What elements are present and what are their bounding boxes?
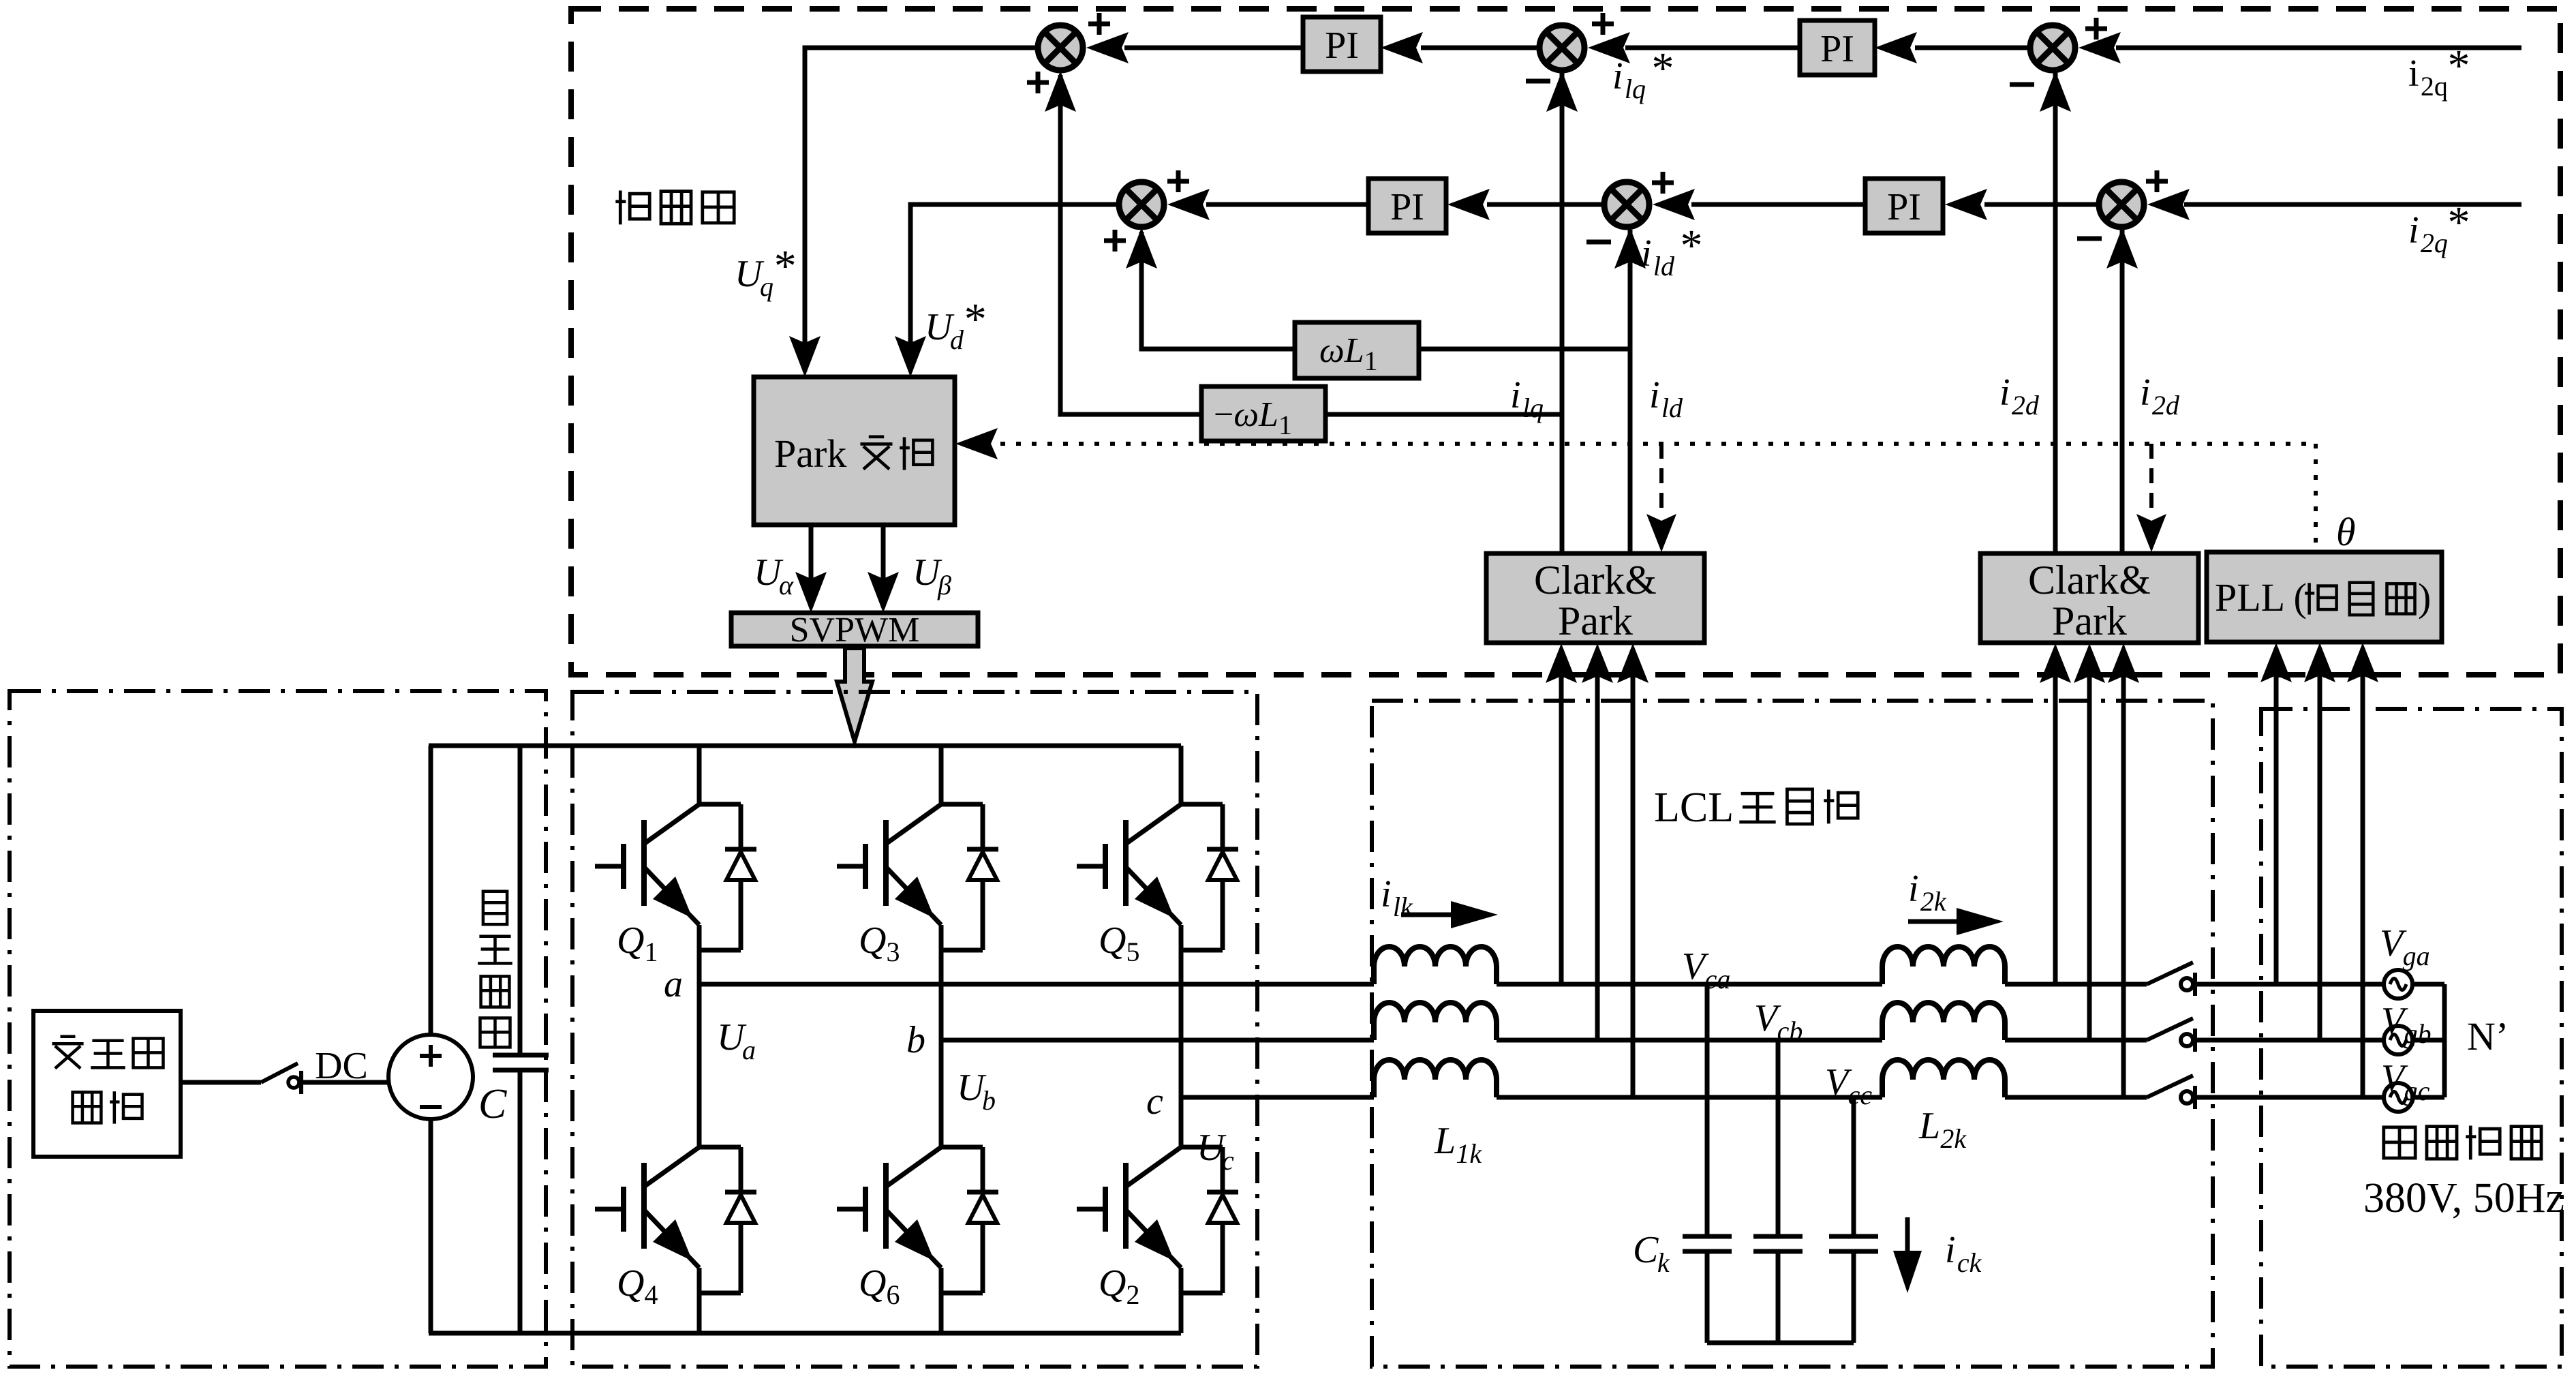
wire source to switch — [181, 1080, 261, 1085]
wire DC source bottom — [429, 1119, 433, 1333]
svg-text:lq: lq — [1625, 74, 1646, 104]
label Ualpha — [754, 551, 794, 600]
svg-text:Clark&: Clark& — [1534, 558, 1657, 603]
arrow into SJ1 — [1086, 32, 1129, 63]
dashed theta branch to Clark&Park1 — [1646, 444, 1676, 552]
neutral bus N' — [2442, 984, 2447, 1097]
svg-text:): ) — [2418, 575, 2431, 620]
plus sign SJ4 lower — [1104, 230, 1126, 252]
arrow into Clark&Park1 a — [1546, 643, 1577, 683]
arrow into SJ6 bottom — [2106, 228, 2138, 269]
capacitor C plates — [493, 1055, 549, 1070]
label i2d right — [2140, 371, 2180, 421]
svg-text:Park: Park — [1558, 598, 1633, 643]
svg-text:Park: Park — [774, 431, 846, 476]
arrow into Clark&Park2 b — [2074, 643, 2105, 683]
label N' — [2467, 1014, 2509, 1059]
summing junction SJ5 — [1604, 182, 1649, 227]
inductor L2k phase c — [1882, 1060, 2005, 1097]
switch DC blade — [261, 1063, 298, 1082]
svg-text:2q: 2q — [2421, 71, 2448, 102]
svg-text:i: i — [2408, 52, 2419, 95]
svg-text:i: i — [1381, 873, 1392, 915]
dotted theta line (PLL to Park) — [1000, 442, 2316, 446]
inductor L1k phase a — [1374, 947, 1497, 984]
wire Vcc tap — [1852, 1097, 1856, 1236]
capacitor Ck phase c — [1829, 1236, 1878, 1251]
svg-text:i: i — [1649, 374, 1660, 416]
wire PI1 to SJ1 — [1124, 46, 1303, 50]
wire Vga to bus — [2412, 982, 2444, 987]
summing junction SJ6 — [2099, 182, 2144, 227]
wire phase c (L1k to L2k) — [1497, 1095, 1882, 1100]
plus sign DC source — [420, 1045, 442, 1067]
wire -wL1 left to SJ1 — [1060, 75, 1201, 414]
svg-text:i: i — [1908, 868, 1919, 910]
label L2k — [1918, 1105, 1967, 1154]
svg-text:q: q — [760, 271, 773, 302]
svg-text:Park: Park — [2052, 598, 2127, 643]
grid source Vga — [2384, 970, 2412, 999]
arrow into Clark&Park1 b — [1582, 643, 1613, 683]
wire Ud* (SJ4 to Park) — [910, 204, 1118, 371]
wire phase a (L1k to L2k) — [1497, 982, 1882, 987]
wire Ubeta — [881, 525, 886, 607]
arrow into PLL c — [2347, 643, 2378, 682]
svg-text:k: k — [1657, 1247, 1670, 1278]
svg-text:N’: N’ — [2467, 1014, 2509, 1059]
plus sign SJ1 upper — [1088, 13, 1110, 35]
plus sign SJ6 — [2146, 170, 2168, 192]
svg-text:C: C — [1633, 1229, 1659, 1271]
label Ub — [957, 1067, 996, 1116]
svg-text:gb: gb — [2404, 1018, 2432, 1049]
wire phase a (L2k to switch) — [2005, 982, 2147, 987]
inductor L1k phase c — [1374, 1060, 1497, 1097]
label 船舶电网 (ship grid) — [2384, 1125, 2541, 1159]
wire tap phase a to Clark&Park1 — [1559, 649, 1564, 984]
wire PI4 to SJ5 — [1691, 202, 1865, 207]
dashed theta branch to Clark&Park2 — [2136, 444, 2166, 552]
svg-text:PI: PI — [1887, 186, 1921, 228]
svg-text:lq: lq — [1522, 393, 1544, 423]
svg-text:Clark&: Clark& — [2028, 558, 2151, 603]
label ilk — [1381, 873, 1413, 922]
svg-text:d: d — [950, 324, 964, 355]
wire SJ5 to PI3 — [1487, 202, 1604, 207]
dash-dot box LCL filter — [1372, 701, 2213, 1367]
minus sign SJ6 — [2077, 237, 2102, 241]
capacitor Ck phase a — [1683, 1236, 1732, 1251]
dotted theta vertical at PLL — [2314, 444, 2318, 549]
svg-text:2k: 2k — [1920, 886, 1947, 917]
switch DC circle — [288, 1071, 301, 1094]
svg-text:i: i — [1945, 1229, 1956, 1271]
arrow into SJ3 bottom — [2040, 71, 2071, 112]
svg-text:b: b — [906, 1019, 925, 1061]
summing junction SJ1 — [1038, 25, 1083, 70]
arrow into PLL b — [2304, 643, 2335, 682]
arrow into SJ2 — [1588, 32, 1630, 63]
grid switch phase b — [2147, 1018, 2195, 1052]
label 稳压电容 (vertical) — [478, 892, 512, 1048]
label 380V 50Hz — [2363, 1175, 2564, 1221]
wire phase c (L2k to switch) — [2005, 1095, 2147, 1100]
wire phase a (inverter to L1k) — [699, 982, 1374, 987]
dash-dot box new-energy source — [10, 691, 546, 1367]
inductor L1k phase b — [1374, 1003, 1497, 1040]
svg-text:i: i — [1999, 371, 2010, 414]
IGBT Q2 with diode — [1077, 1097, 1238, 1333]
grid switch phase c — [2147, 1076, 2195, 1109]
wire i2d vertical (Clark&Park2 to SJ3) — [2053, 73, 2058, 553]
arrow Uq* into Park — [789, 336, 821, 377]
svg-text:SVPWM: SVPWM — [790, 611, 920, 650]
label Vgc — [2381, 1057, 2430, 1106]
arrow into SJ4 — [1167, 189, 1210, 220]
svg-text:PI: PI — [1390, 186, 1424, 228]
minus sign SJ2 — [1526, 79, 1550, 84]
arrow into SJ2 bottom — [1546, 71, 1578, 112]
svg-text:c: c — [1222, 1145, 1234, 1176]
IGBT Q6 with diode — [837, 1040, 998, 1333]
svg-text:θ: θ — [2336, 510, 2356, 554]
minus sign SJ3 — [2010, 82, 2034, 87]
wire cap b lower — [1776, 1251, 1781, 1343]
label Ud* — [925, 294, 987, 355]
svg-text:L: L — [1918, 1105, 1940, 1147]
block wL1 — [1295, 322, 1419, 378]
wire phase b (L2k to switch) — [2005, 1038, 2147, 1043]
svg-text:*: * — [2448, 198, 2470, 247]
block Clark&Park 1 — [1486, 553, 1704, 643]
label Uc — [1197, 1127, 1234, 1176]
wire PI2 to SJ2 — [1625, 46, 1800, 50]
label node a — [664, 963, 683, 1005]
svg-text:LCL: LCL — [1654, 785, 1734, 831]
wire DC source top — [429, 746, 433, 1035]
label L1k — [1434, 1120, 1482, 1169]
capacitor C branch upper — [518, 746, 523, 1055]
wire tap grid a to PLL — [2274, 648, 2279, 984]
svg-text:ca: ca — [1705, 964, 1731, 994]
label ild — [1649, 374, 1683, 423]
arrow into PI4 — [1945, 189, 1987, 220]
label ilq — [1510, 374, 1544, 423]
svg-text:cc: cc — [1848, 1080, 1873, 1110]
svg-text:b: b — [982, 1085, 996, 1116]
svg-text:1k: 1k — [1456, 1138, 1482, 1169]
wire capacitor common bus — [1707, 1341, 1854, 1345]
arrow into PLL a — [2260, 643, 2292, 682]
wire SJ6 to PI4 — [1984, 202, 2098, 207]
block SVPWM — [731, 611, 978, 650]
svg-text:2k: 2k — [1940, 1123, 1967, 1154]
PI box PI2 — [1800, 20, 1875, 75]
arrow into Clark&Park2 a — [2040, 643, 2071, 683]
wire wL1 left to SJ4 — [1141, 232, 1295, 349]
arrow into SJ6 — [2147, 189, 2190, 220]
svg-text:PI: PI — [1820, 28, 1854, 70]
block Park transform (Park变换) — [754, 377, 955, 525]
wire Vgc to bus — [2412, 1095, 2444, 1100]
plus sign SJ1 lower — [1027, 72, 1049, 93]
wire tap phase c to Clark&Park1 — [1631, 649, 1636, 1097]
wire switch b to Vgb — [2196, 1038, 2384, 1043]
arrow into SJ5 — [1653, 189, 1695, 220]
svg-text:*: * — [1652, 44, 1674, 93]
wire Vgb to bus — [2412, 1038, 2444, 1043]
label Ck — [1633, 1229, 1670, 1278]
svg-text:i: i — [1641, 232, 1652, 275]
label i2k — [1908, 868, 1947, 917]
wire -wL1 right to ilq line — [1325, 412, 1562, 417]
svg-text:α: α — [779, 570, 794, 600]
label Ua — [717, 1016, 756, 1065]
wire cap c lower — [1852, 1251, 1856, 1343]
plus sign SJ2 — [1592, 13, 1614, 35]
wire tap grid c to PLL — [2361, 648, 2365, 1097]
wire i2q* input row1 — [2116, 46, 2521, 50]
wire tap phase a to Clark&Park2 — [2053, 649, 2058, 984]
svg-text:ga: ga — [2403, 941, 2430, 971]
label 控制器 (controller) — [615, 190, 734, 224]
svg-text:a: a — [664, 963, 683, 1005]
wire wL1 right to ild line — [1419, 347, 1630, 352]
svg-text:*: * — [2448, 41, 2470, 91]
arrow Ud* into Park — [895, 336, 926, 377]
svg-text:a: a — [742, 1035, 756, 1065]
grid source Vgc — [2384, 1083, 2412, 1112]
minus sign DC source — [420, 1105, 442, 1109]
wire i2d vertical (Clark&Park2 to SJ6) — [2120, 230, 2125, 553]
wire switch c to Vgc — [2196, 1095, 2384, 1100]
label i2d left — [1999, 371, 2040, 421]
inductor L2k phase a — [1882, 947, 2005, 984]
IGBT Q3 with diode — [837, 746, 998, 1040]
dash-dot box inverter — [572, 692, 1257, 1367]
wire phase b (inverter to L1k) — [941, 1038, 1374, 1043]
wire Ualpha — [809, 525, 814, 607]
plus sign SJ4 upper — [1167, 170, 1189, 192]
arrow into SJ3 — [2079, 32, 2121, 63]
block -wL1 — [1201, 386, 1325, 441]
arrow theta into Park — [955, 428, 998, 459]
arrow into PI1 — [1381, 32, 1423, 63]
arrow into SJ4 bottom — [1126, 228, 1157, 269]
grid switch phase a — [2147, 962, 2195, 996]
dash-dot box ship grid — [2261, 709, 2562, 1367]
svg-text:2d: 2d — [2152, 390, 2180, 421]
wire PI3 to SJ4 — [1206, 202, 1368, 207]
arrow into Clark&Park2 c — [2108, 643, 2139, 683]
svg-text:c: c — [1146, 1080, 1163, 1123]
label ick — [1945, 1229, 1982, 1278]
label ilq* — [1612, 44, 1674, 104]
wire Uq* (SJ1 to Park) — [805, 48, 1037, 371]
svg-text:L: L — [1434, 1120, 1456, 1162]
svg-text:gc: gc — [2404, 1076, 2430, 1106]
svg-text:β: β — [937, 570, 951, 600]
PI box PI4 — [1865, 179, 1943, 233]
svg-text:ld: ld — [1653, 251, 1675, 281]
svg-text:ck: ck — [1957, 1247, 1982, 1278]
wire switch a to Vga — [2196, 982, 2384, 987]
arrow into PI3 — [1447, 189, 1490, 220]
wire switch to DC source — [301, 1080, 390, 1085]
svg-text:i: i — [2140, 371, 2151, 414]
summing junction SJ3 — [2030, 25, 2075, 70]
wire SJ2 to PI1 — [1421, 46, 1539, 50]
box 新能源发电 (new energy generation) — [33, 1011, 181, 1157]
wire i2q* input row2 — [2184, 202, 2521, 207]
svg-text:cb: cb — [1777, 1016, 1803, 1046]
wire phase b (L1k to L2k) — [1497, 1038, 1882, 1043]
capacitor Ck phase b — [1753, 1236, 1803, 1251]
arrow into SJ1 bottom — [1045, 71, 1076, 112]
label node c — [1146, 1080, 1163, 1123]
grid source Vgb — [2384, 1026, 2412, 1054]
svg-text:i: i — [1612, 55, 1623, 97]
wire Vca tap — [1705, 984, 1710, 1236]
label Uq* — [735, 241, 797, 302]
IGBT Q4 with diode — [595, 984, 756, 1333]
IGBT Q1 with diode — [595, 746, 756, 984]
inductor L2k phase b — [1882, 1003, 2005, 1040]
summing junction SJ4 — [1119, 182, 1164, 227]
block Clark&Park 2 — [1980, 553, 2198, 643]
arrow ilk — [1401, 901, 1498, 928]
label theta — [2336, 510, 2356, 554]
DC voltage source circle — [388, 1035, 473, 1119]
wire ilq vertical (Clark&Park1 to SJ2) — [1560, 73, 1565, 553]
svg-text:i: i — [1510, 374, 1521, 416]
label i2q* (row2) — [2408, 198, 2470, 258]
wire phase c (inverter to L1k) — [1181, 1095, 1374, 1100]
wire ild vertical (Clark&Park1 to SJ5) — [1628, 230, 1633, 553]
svg-text:2d: 2d — [2012, 390, 2040, 421]
svg-text:*: * — [1681, 221, 1703, 271]
svg-text:PLL (: PLL ( — [2215, 575, 2307, 620]
arrow into SJ5 bottom — [1614, 228, 1646, 269]
block arrow SVPWM to inverter — [837, 648, 872, 742]
label DC — [315, 1045, 368, 1087]
DC bus top rail — [429, 744, 1181, 748]
wire tap grid b to PLL — [2318, 648, 2322, 1040]
label C — [478, 1081, 507, 1127]
svg-text:2q: 2q — [2421, 228, 2448, 258]
plus sign SJ3 — [2085, 18, 2107, 40]
wire tap phase b to Clark&Park1 — [1595, 649, 1600, 1040]
wire SJ3 to PI2 — [1915, 46, 2029, 50]
capacitor C branch lower — [518, 1070, 523, 1333]
label Vgb — [2381, 1000, 2432, 1049]
svg-text:ld: ld — [1661, 393, 1683, 423]
DC bus bottom rail — [429, 1331, 1181, 1336]
label i2q* (row1) — [2408, 41, 2470, 102]
summing junction SJ2 — [1539, 25, 1584, 70]
wire Vcb tap — [1776, 1040, 1781, 1236]
arrow ick — [1893, 1217, 1922, 1293]
svg-text:C: C — [478, 1081, 507, 1127]
arrow Ubeta into SVPWM — [868, 572, 899, 613]
svg-text:PI: PI — [1325, 25, 1359, 67]
PI box PI3 — [1368, 179, 1446, 233]
arrow Ualpha into SVPWM — [795, 572, 827, 613]
minus sign SJ5 — [1586, 240, 1611, 245]
IGBT Q5 with diode — [1077, 746, 1238, 1097]
label Vga — [2380, 922, 2430, 971]
wire tap phase c to Clark&Park2 — [2121, 649, 2126, 1097]
PI box PI1 — [1303, 17, 1381, 72]
svg-text:380V, 50Hz: 380V, 50Hz — [2363, 1175, 2564, 1221]
svg-text:*: * — [774, 241, 797, 291]
svg-text:*: * — [964, 294, 987, 344]
plus sign SJ5 — [1652, 172, 1674, 194]
label Vcc — [1825, 1061, 1872, 1110]
label LCL滤波器 (LCL filter) — [1654, 785, 1858, 831]
arrow i2k — [1908, 908, 2004, 935]
arrow into PI2 — [1875, 32, 1917, 63]
controller dashed boundary box (控制器) — [571, 9, 2560, 675]
label Vcb — [1754, 997, 1803, 1046]
wire tap phase b to Clark&Park2 — [2087, 649, 2092, 1040]
arrow into Clark&Park1 c — [1617, 643, 1649, 683]
label node b — [906, 1019, 925, 1061]
label Ubeta — [913, 551, 951, 600]
label Vca — [1682, 945, 1730, 994]
wire cap a lower — [1705, 1251, 1710, 1343]
label ild* — [1641, 221, 1703, 281]
svg-text:lk: lk — [1393, 892, 1413, 922]
block PLL (锁相环) — [2207, 552, 2442, 642]
svg-text:i: i — [2408, 209, 2419, 252]
